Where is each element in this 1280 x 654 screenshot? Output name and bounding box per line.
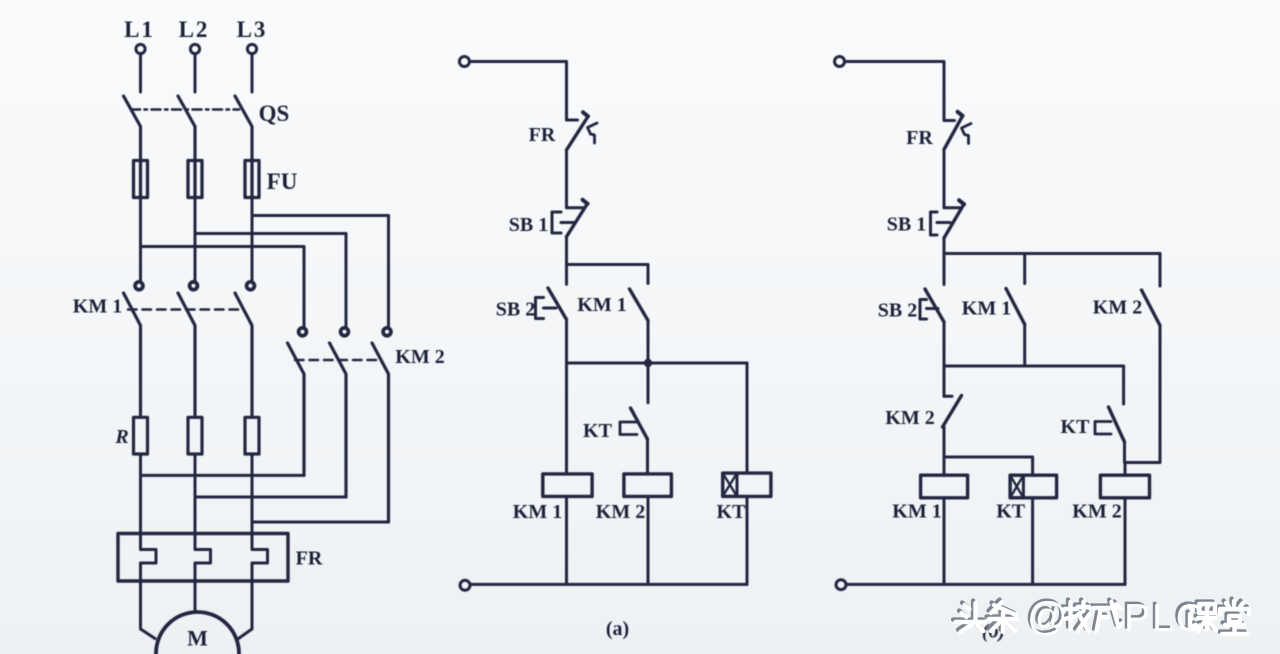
disconnect switch QS pole 1 [124, 96, 141, 161]
FR heater element 3 [252, 534, 268, 582]
section b: SB2 NO pushbutton [920, 289, 944, 322]
svg-text:KM 2: KM 2 [395, 346, 444, 368]
section a: KT branch wire [746, 363, 749, 473]
tap wire L1 branch to KM2 pole1 [141, 247, 305, 328]
section a: coil KT with delay box [723, 473, 771, 496]
section b: wire SB2 down [943, 322, 946, 366]
svg-text:L1: L1 [124, 17, 155, 42]
section a: junction dot [644, 359, 652, 367]
svg-text:M: M [187, 626, 208, 651]
section a: coil KM1 [543, 474, 592, 497]
section b: coil KM2 [1100, 475, 1149, 498]
section b: wire coil KM1 to rail [943, 498, 946, 585]
section a: wire coil KT to rail [746, 497, 749, 585]
section a: branch rail to KM1 aux [567, 265, 649, 284]
svg-text:FR: FR [529, 124, 556, 146]
section b: wire SB1 down [943, 238, 946, 285]
KM2 contact circle pole1 [299, 328, 307, 336]
section b: stub KM2 branch [1159, 254, 1162, 287]
section b: top wire [845, 62, 944, 121]
KM1 linkage dashed [128, 308, 240, 311]
section b: bottom terminal [836, 580, 846, 590]
wire FR to motor phase1 [141, 581, 156, 639]
section a: wire SB1 down [565, 237, 568, 285]
svg-text:QS: QS [259, 101, 290, 126]
tap wire L3 branch to KM2 pole3 [252, 216, 389, 328]
svg-text:KM 2: KM 2 [1093, 297, 1142, 319]
wire R1 down to FR [139, 454, 142, 534]
section a: KT timed NO contact [620, 363, 648, 474]
section b: KT timed NO contact [1095, 407, 1125, 463]
section a: wire coil KM1 to rail [565, 497, 568, 585]
watermark 头条 @技成PLC课堂 [953, 593, 1249, 640]
svg-text:KM 1: KM 1 [513, 501, 562, 523]
svg-text:@: @ [1027, 595, 1068, 639]
wire L2 to QS [194, 54, 197, 92]
svg-text:KT: KT [996, 501, 1026, 523]
section b: wire coil KM2 to rail [1124, 498, 1127, 585]
svg-text:KM 2: KM 2 [1072, 501, 1121, 523]
svg-text:KM 1: KM 1 [892, 501, 941, 523]
svg-text:L2: L2 [179, 17, 210, 42]
contactor KM2 blade pole2 [330, 343, 347, 497]
section a: SB1 NC pushbutton [552, 200, 588, 237]
terminal L3 [247, 44, 256, 53]
section b: coil KT with delay box [1010, 475, 1057, 498]
QS linkage dashed [131, 108, 239, 111]
section b: rail 3 to KT coil [944, 457, 1033, 475]
tap wire L2 branch to KM2 pole2 [195, 234, 346, 328]
svg-text:(a): (a) [606, 618, 629, 640]
bypass link KM2 pole3 to phase3 [252, 521, 389, 524]
wire L3 to QS [251, 54, 254, 92]
svg-text:KT: KT [583, 420, 613, 442]
section b: KM2 auxiliary NO contact [1125, 290, 1160, 463]
svg-text:FR: FR [296, 548, 323, 570]
terminal L2 [190, 44, 199, 53]
resistor R2 [188, 417, 202, 454]
svg-text:KT: KT [717, 501, 747, 523]
svg-text:L3: L3 [237, 17, 268, 42]
motor M circle [156, 612, 239, 654]
contactor KM2 blade pole1 [288, 343, 305, 475]
section b: parallel rail 2 [944, 366, 1124, 404]
svg-text:KT: KT [1061, 416, 1091, 438]
KM1 contact circle pole1 [135, 282, 143, 290]
svg-text:SB 2: SB 2 [878, 300, 917, 322]
svg-text:SB 1: SB 1 [509, 214, 548, 236]
svg-text:FR: FR [906, 127, 933, 149]
KM2 contact circle pole2 [341, 328, 349, 336]
section b: bottom rail [846, 583, 1125, 586]
wire FR to motor phase3 [239, 581, 253, 639]
bypass link KM2 pole2 to phase2 [195, 496, 346, 499]
section a: top terminal [459, 57, 469, 67]
KM1 contact circle pole2 [190, 282, 198, 290]
section a: wire SB2 down to coil [565, 320, 568, 475]
section b: wire to KM2 coil [1124, 463, 1127, 476]
wire fuse3 down to KM1 pole3 [251, 198, 254, 282]
KM2 linkage dashed [295, 359, 378, 362]
disconnect switch QS pole 3 [235, 96, 252, 161]
wire fuse2 down to KM1 pole2 [194, 198, 197, 282]
resistor R1 [134, 417, 148, 454]
terminal L1 [136, 44, 145, 53]
section a: SB2 NO pushbutton [536, 288, 567, 320]
section a: bottom rail [470, 583, 747, 586]
section b: KM2 NC interlock contact [943, 366, 962, 457]
section b: SB1 NC pushbutton [931, 200, 965, 238]
fuse FU 2 [188, 161, 202, 198]
disconnect switch QS pole 2 [178, 96, 195, 161]
section b: wire to KM1 coil [943, 457, 946, 475]
svg-text:KM 1: KM 1 [962, 298, 1011, 320]
resistor R3 [245, 417, 259, 454]
section b: KM1 auxiliary NO contact [1006, 289, 1025, 367]
wire FR to motor phase2 [194, 581, 197, 612]
thermal relay FR box [118, 534, 288, 582]
section a: wire coil KM2 to rail [647, 497, 650, 585]
wire R3 down to FR [251, 454, 254, 534]
svg-text:KM 2: KM 2 [885, 407, 934, 429]
section b: coil KM1 [921, 475, 968, 498]
section a: top wire [470, 62, 567, 121]
section a: FR NC contact [567, 112, 598, 150]
KM1 contact circle pole3 [247, 282, 255, 290]
fuse FU 3 [245, 161, 259, 198]
section a: KM1 auxiliary NO contact [630, 289, 649, 363]
section a: wire FR to SB1 [565, 150, 568, 208]
svg-text:KM 2: KM 2 [596, 501, 645, 523]
svg-text:SB 1: SB 1 [887, 214, 926, 236]
svg-text:PLC: PLC [1124, 597, 1206, 640]
contactor KM1 blade pole1 [124, 293, 141, 417]
section a: junction rail [567, 362, 748, 365]
FR heater element 1 [141, 534, 157, 582]
svg-text:SB 2: SB 2 [496, 299, 535, 321]
KM2 contact circle pole3 [383, 328, 391, 336]
svg-text:FU: FU [267, 169, 298, 194]
FR heater element 2 [195, 534, 211, 582]
svg-text:R: R [114, 426, 128, 448]
section b: wire coil KT to rail [1031, 498, 1034, 585]
svg-text:KM 1: KM 1 [73, 296, 122, 318]
contactor KM1 blade pole3 [235, 293, 252, 417]
wire L1 to QS [139, 54, 142, 92]
section a: bottom terminal [460, 580, 470, 590]
section a: coil KM2 [624, 474, 672, 497]
section b: stub KM1 branch [1023, 254, 1026, 284]
contactor KM2 blade pole3 [372, 343, 389, 522]
contactor KM1 blade pole2 [178, 293, 195, 417]
fuse FU 1 [134, 161, 148, 198]
section b: top terminal [835, 57, 845, 67]
section b: parallel rail 1 [944, 252, 1160, 255]
svg-text:KM 1: KM 1 [577, 294, 626, 316]
wire R2 down to FR [194, 454, 197, 534]
section b: FR NC contact [944, 112, 971, 150]
wire fuse1 down to KM1 pole1 [139, 198, 142, 282]
bypass link KM2 pole1 to phase1 [141, 474, 305, 477]
section b: wire FR to SB1 [943, 150, 946, 208]
